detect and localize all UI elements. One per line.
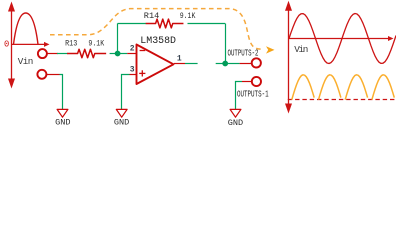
svg-text:OUTPUTS-1: OUTPUTS-1 bbox=[237, 88, 269, 99]
wire output segment b bbox=[216, 63, 226, 65]
orange annotation arrowhead bbox=[266, 46, 275, 53]
svg-text:OUTPUTS-2: OUTPUTS-2 bbox=[228, 48, 259, 59]
svg-text:2: 2 bbox=[130, 45, 135, 54]
rectified output hump 2 bbox=[319, 75, 341, 100]
right plot vertical axis bbox=[288, 8, 290, 106]
svg-text:Vin: Vin bbox=[294, 44, 308, 55]
wire VIN pin 2 to ground bbox=[60, 75, 63, 111]
OUTPUTS-2 red stub bbox=[240, 63, 252, 65]
junction node A (inverting input net) bbox=[115, 51, 121, 57]
right plot dashed zero baseline bbox=[288, 99, 396, 101]
rectified output hump 4 bbox=[372, 75, 394, 100]
pin 3 red stub bbox=[130, 74, 137, 76]
rectified output hump 1 bbox=[292, 75, 314, 100]
op-amp minus sign bbox=[140, 50, 146, 52]
connector VIN pin 2 red stub bbox=[47, 74, 60, 76]
wire node A to pin 2 bbox=[118, 53, 128, 55]
OUTPUTS-2 terminal circle bbox=[252, 58, 261, 67]
feedback wire: down to output node bbox=[225, 24, 227, 64]
svg-text:GND: GND bbox=[114, 118, 129, 127]
right plot Vin sine wave bbox=[289, 14, 396, 64]
left plot axis down arrowhead bbox=[8, 79, 15, 89]
wire output node to OUTPUTS-2 bbox=[225, 63, 239, 65]
orange dashed annotation path bbox=[50, 9, 262, 50]
svg-text:LM358D: LM358D bbox=[140, 35, 176, 46]
svg-text:GND: GND bbox=[228, 118, 243, 127]
pin 2 red stub bbox=[127, 53, 136, 55]
svg-text:3: 3 bbox=[130, 66, 135, 75]
feedback wire: top right segment bbox=[188, 23, 226, 25]
OUTPUTS-1 terminal circle bbox=[252, 77, 261, 86]
connector VIN pin 2 terminal circle bbox=[37, 70, 46, 79]
svg-text:Vin: Vin bbox=[18, 56, 34, 67]
connector VIN pin 1 red stub bbox=[47, 53, 58, 55]
svg-text:9.1K: 9.1K bbox=[180, 13, 196, 21]
OUTPUTS-1 red stub bbox=[242, 81, 252, 83]
ground (pin 3) arrow bbox=[116, 109, 127, 117]
feedback wire: node A up bbox=[117, 24, 119, 54]
ground (VIN) arrow bbox=[57, 109, 68, 117]
junction output node bbox=[222, 61, 228, 67]
wire pin 3 to ground elbow bbox=[122, 75, 130, 111]
wire output segment a bbox=[185, 63, 198, 65]
wire VIN to R13 bbox=[57, 53, 67, 55]
feedback wire: top left segment bbox=[118, 23, 147, 25]
right plot horizontal axis arrowhead bbox=[388, 36, 394, 41]
ground (OUTPUTS-1) arrow bbox=[230, 109, 241, 117]
left plot horizontal axis bbox=[12, 43, 47, 45]
right plot axis up arrowhead bbox=[285, 1, 292, 11]
connector VIN pin 1 terminal circle bbox=[38, 49, 47, 58]
left plot vertical axis bbox=[11, 9, 13, 81]
left plot axis up arrowhead bbox=[8, 2, 15, 12]
wire R13 to node A bbox=[110, 53, 118, 55]
rectified output hump 3 bbox=[345, 75, 367, 100]
resistor R13 bbox=[67, 49, 106, 57]
left plot input half-sine hump bbox=[14, 13, 39, 44]
svg-text:9.1K: 9.1K bbox=[88, 41, 104, 49]
svg-text:R13: R13 bbox=[65, 41, 77, 49]
left plot horizontal axis arrowhead bbox=[44, 42, 50, 47]
right plot axis down arrowhead bbox=[285, 104, 292, 114]
svg-text:R14: R14 bbox=[144, 13, 160, 21]
pin 1 output red stub bbox=[174, 63, 185, 65]
svg-text:0: 0 bbox=[4, 40, 9, 50]
op-amp U1 LM358D triangle bbox=[137, 45, 174, 85]
resistor R14 bbox=[146, 19, 184, 28]
svg-text:1: 1 bbox=[177, 55, 182, 64]
right plot horizontal axis bbox=[289, 38, 391, 40]
wire OUTPUTS-1 to ground bbox=[236, 82, 243, 111]
op-amp plus sign bbox=[139, 70, 145, 76]
svg-text:GND: GND bbox=[55, 118, 70, 127]
